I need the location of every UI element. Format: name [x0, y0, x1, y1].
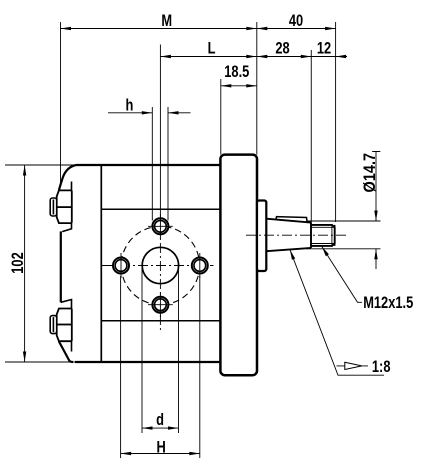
arrow H right — [189, 452, 200, 455]
pump body outline — [59, 165, 221, 362]
svg-text:40: 40 — [289, 13, 303, 31]
body bottom-left diagonal — [59, 341, 73, 362]
inner horizontal line upper — [101, 208, 220, 210]
shaft key — [276, 217, 307, 223]
ext line h left — [151, 107, 153, 221]
arrow H left — [121, 452, 132, 455]
dim line H — [121, 453, 200, 455]
port circles centerline vertical — [159, 207, 161, 331]
body bottom edge — [75, 361, 220, 363]
svg-text:H: H — [157, 439, 166, 457]
arrow 102 top — [23, 165, 26, 176]
bolt hole right — [192, 253, 208, 278]
dim line M — [61, 28, 257, 30]
shaft taper — [266, 219, 311, 252]
arrow d right — [168, 426, 179, 429]
svg-text:d: d — [156, 411, 164, 429]
port boss bottom — [61, 300, 72, 352]
dim line 12 — [311, 56, 347, 58]
arrow 28 left — [257, 55, 268, 58]
bolt hole top — [148, 214, 173, 239]
arrow h left outside — [142, 111, 153, 114]
dim line 102 — [24, 165, 26, 362]
svg-text:L: L — [208, 40, 216, 58]
svg-text:Ø14.7: Ø14.7 — [361, 153, 379, 193]
shaft seal boss — [257, 201, 266, 272]
dim line 18.5 — [221, 85, 257, 87]
ext line H right — [199, 276, 201, 458]
dim line 40 — [257, 28, 336, 30]
svg-text:18.5: 18.5 — [224, 64, 249, 82]
center port bore circle — [142, 247, 178, 283]
dim line dia14.7 — [372, 152, 380, 270]
dim line L — [160, 56, 256, 58]
arrow M right — [246, 27, 256, 30]
svg-text:h: h — [125, 97, 133, 115]
arrow leader taper — [290, 250, 295, 260]
arrow 40 right — [325, 27, 336, 30]
svg-text:M: M — [161, 13, 172, 31]
svg-text:1:8: 1:8 — [372, 359, 391, 377]
ext line flange face — [256, 22, 258, 155]
arrow leader M12 — [322, 247, 329, 256]
arrow 40 left — [257, 27, 268, 30]
svg-text:28: 28 — [275, 40, 289, 58]
inner horizontal line lower — [101, 320, 220, 322]
arrow 12 right outside — [336, 55, 347, 58]
ext line dia14.7 bottom — [306, 248, 381, 250]
ext line dia14.7 top — [306, 220, 381, 222]
leader taper 1:8 — [290, 250, 384, 375]
ext line d right — [178, 268, 180, 433]
arrow 28 right — [301, 55, 312, 58]
arrow L right — [246, 55, 256, 58]
arrow 18.5 right — [246, 84, 256, 87]
ext line d left — [141, 268, 143, 433]
taper symbol line — [337, 365, 369, 367]
arrow 102 bottom — [23, 352, 26, 363]
port boss top — [62, 182, 71, 232]
leader M12x1.5 — [322, 247, 362, 302]
ext line 102 top — [5, 164, 76, 166]
arrow 18.5 left — [221, 84, 232, 87]
svg-text:12: 12 — [317, 40, 331, 58]
arrow L left — [160, 55, 171, 58]
cover joint line — [100, 165, 102, 362]
hex nut top port — [57, 190, 72, 223]
dim line h — [108, 112, 191, 114]
mounting flange — [220, 155, 257, 376]
dim line 28 — [257, 56, 311, 58]
body top edge — [76, 164, 220, 166]
ext line h right — [167, 107, 169, 221]
taper symbol triangle — [345, 362, 362, 369]
ext line H left — [120, 276, 122, 458]
arrow d left — [142, 426, 153, 429]
hex nut bottom port — [57, 309, 72, 342]
arrow dia14.7 top — [374, 211, 377, 222]
port circles centerline horizontal — [102, 265, 214, 267]
ext line M left — [60, 22, 62, 187]
svg-text:M12x1.5: M12x1.5 — [363, 295, 413, 313]
ext line thread start — [310, 50, 312, 223]
bolt hole left — [113, 253, 129, 278]
ext line flange left — [220, 79, 222, 155]
bolt circle dashed — [121, 226, 199, 304]
arrow M left — [61, 27, 72, 30]
port spigot bottom — [50, 316, 57, 334]
port spigot top — [50, 198, 57, 216]
shaft centerline — [246, 234, 346, 236]
arrow dia14.7 bottom — [374, 249, 377, 259]
ext line port centerline top — [159, 45, 161, 208]
ext line 102 bottom — [5, 361, 75, 363]
arrow h right outside — [168, 111, 179, 114]
cover left edge — [60, 231, 62, 302]
bolt hole bottom — [148, 293, 173, 318]
arrowheads — [23, 27, 378, 455]
ext line shaft tip — [335, 22, 337, 222]
svg-text:102: 102 — [10, 252, 28, 273]
dim line d — [142, 427, 179, 429]
threaded end M12 — [311, 225, 335, 246]
body top-left curve — [59, 165, 76, 190]
